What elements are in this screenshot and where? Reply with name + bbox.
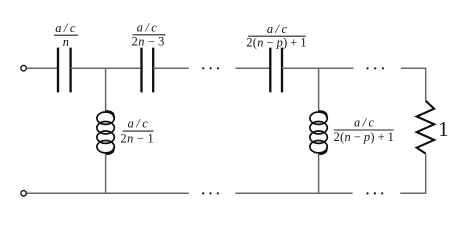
wire top rail: T1 to C1: [27, 67, 58, 69]
ellipsis dots (bottom rail, second gap): [366, 192, 383, 194]
svg-text:2n − 3: 2n − 3: [132, 35, 165, 49]
value label a/c over 2n-1 (L1): [120, 117, 154, 146]
capacitor C3: [270, 48, 282, 93]
svg-text:a / c: a / c: [55, 21, 76, 35]
value label a/c over n (C1): [54, 21, 78, 49]
ellipsis dots (top rail, second gap): [366, 67, 384, 69]
terminal T1 (top-left input): [21, 65, 27, 71]
svg-text:a / c: a / c: [137, 20, 158, 34]
capacitor C2: [142, 48, 154, 93]
wire bottom rail: right corner up to R1: [400, 154, 426, 194]
inductor L2: [310, 111, 327, 155]
resistor R1: [417, 101, 435, 154]
wire top rail: C1 to C2 through node A: [71, 67, 142, 69]
value label a/c over 2(n-p)+1 (C3): [246, 22, 307, 50]
svg-text:a / c: a / c: [267, 22, 288, 36]
wire top rail: right corner down to R1: [401, 68, 426, 101]
svg-text:2n − 1: 2n − 1: [120, 132, 154, 146]
svg-text:2(n − p) + 1: 2(n − p) + 1: [246, 35, 307, 49]
wire: top rail to L2: [318, 68, 320, 111]
value label a/c over 2n-3 (C2): [132, 20, 166, 48]
value label a/c over 2(n-p)+1 (L2): [334, 116, 395, 145]
svg-text:1: 1: [438, 117, 449, 141]
terminal T2 (bottom-left input): [21, 191, 27, 197]
capacitor C1: [58, 48, 71, 93]
svg-text:n: n: [63, 35, 69, 49]
wire: top rail to L1: [105, 68, 107, 111]
wire: L2 to bottom rail: [318, 154, 320, 193]
wire: L1 to bottom rail: [105, 154, 107, 193]
inductor L1: [97, 111, 114, 155]
ellipsis dots (top rail, first gap): [202, 67, 219, 69]
wire top rail: C2 to first break: [153, 67, 189, 69]
wire top rail: resume to C3: [235, 67, 270, 69]
wire bottom rail: T2 to first break: [27, 192, 189, 194]
wire bottom rail: middle segment: [235, 192, 352, 194]
wire top rail: C3 to second break through node B: [282, 67, 353, 69]
svg-text:2(n − p) + 1: 2(n − p) + 1: [334, 130, 395, 144]
svg-text:a / c: a / c: [128, 117, 149, 131]
svg-text:a / c: a / c: [354, 116, 375, 130]
ellipsis dots (bottom rail, first gap): [202, 192, 219, 194]
